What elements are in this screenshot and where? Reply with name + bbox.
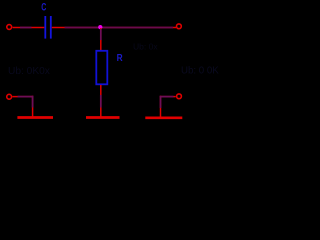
wire: corner down to ground bbox=[32, 96, 34, 117]
terminal TP3 (bottom-left open circle) bbox=[7, 94, 12, 99]
wire (dark segment on input wire) bbox=[20, 27, 32, 29]
wire: capacitor to junction to output terminal bbox=[52, 27, 176, 29]
svg-text:Ub: 0K0x: Ub: 0K0x bbox=[8, 66, 50, 77]
svg-text:C: C bbox=[41, 1, 46, 13]
resistor R (vertical rectangle body) bbox=[96, 51, 107, 85]
svg-text:Ub: 0x: Ub: 0x bbox=[133, 41, 158, 51]
svg-text:Ub: 0 0K: Ub: 0 0K bbox=[181, 65, 219, 76]
wire (purple fringe mid) bbox=[100, 95, 102, 108]
terminal TP1 (input, top-left open circle) bbox=[7, 25, 12, 30]
ground (center bar) bbox=[86, 116, 120, 119]
svg-text:R: R bbox=[117, 52, 123, 63]
ground (bottom-right bar) bbox=[145, 116, 182, 119]
wire: bottom-left terminal to corner bbox=[12, 96, 33, 98]
terminal TP4 (bottom-right open circle) bbox=[177, 94, 182, 99]
wire (purple segment vertical) bbox=[32, 96, 34, 108]
wire (purple segment) bbox=[160, 96, 174, 98]
terminal TP2 (output, top-right open circle) bbox=[177, 24, 182, 29]
wire (dark magenta long segment) bbox=[65, 27, 174, 29]
ground (bottom-left bar) bbox=[17, 116, 53, 119]
wire (purple fringe below junction) bbox=[100, 29, 102, 40]
wire: resistor bottom to ground bbox=[100, 85, 102, 117]
wire: junction down to resistor bbox=[100, 28, 102, 50]
wire: bottom-right terminal to corner bbox=[160, 96, 176, 98]
node junction (magenta dot) bbox=[98, 25, 102, 29]
wire: input terminal to capacitor bbox=[13, 27, 45, 29]
wire (purple segment) bbox=[18, 96, 34, 98]
capacitor C (two vertical plates) bbox=[45, 16, 51, 39]
wire (purple segment vertical) bbox=[160, 96, 162, 108]
wire: corner down to ground bbox=[160, 96, 162, 117]
